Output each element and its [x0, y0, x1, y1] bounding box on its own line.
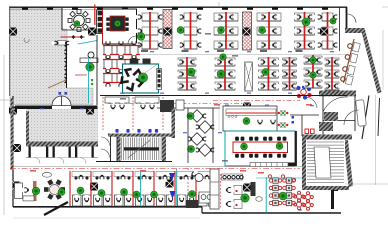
dimension line left	[0, 55, 9, 215]
table round small bottom	[190, 170, 203, 182]
cell walls elevators	[26, 147, 98, 158]
stair2 walls	[302, 135, 353, 191]
line pointer pinwheel	[141, 65, 157, 76]
table meeting with chairs	[106, 16, 128, 31]
cell door arcs	[34, 158, 86, 164]
room conference walls	[225, 131, 295, 166]
marks green lounge	[91, 79, 93, 85]
tables green legs	[278, 110, 289, 127]
table low bottom-left	[23, 196, 34, 201]
corridor line bands	[136, 53, 347, 55]
plant bottom row 154	[151, 191, 158, 198]
column grid (16.5 185.5)	[13, 182, 21, 190]
desk cluster A4	[257, 12, 281, 49]
desk reception	[80, 58, 98, 63]
partition red meeting left	[102, 9, 104, 44]
plant a2	[177, 27, 184, 34]
walls diamond room	[188, 108, 213, 163]
workstation bc1	[226, 186, 242, 195]
fireline red corridor	[108, 101, 300, 104]
wall service core band	[26, 142, 98, 147]
locker cabinet L1	[163, 10, 172, 49]
wall top window mullions	[22, 7, 328, 9]
desk cluster C2	[214, 57, 235, 90]
pinwheel desks	[122, 69, 143, 90]
wall outer right vestibule	[362, 96, 369, 140]
column grid (169.5 183.5)	[166, 180, 174, 188]
cell interiors	[31, 147, 92, 158]
partition red office	[226, 112, 276, 114]
tables dark above pinwheel	[130, 59, 151, 64]
table round with 8 chairs	[68, 10, 90, 32]
wall stub bottom-right	[331, 188, 338, 209]
desk cluster C4b	[323, 57, 341, 90]
plant bottom row 101.5	[98, 190, 105, 197]
plant large reception	[86, 63, 94, 71]
wall bottom exterior right	[202, 207, 341, 213]
table conference	[233, 137, 288, 158]
wall meeting room divider	[62, 8, 90, 30]
room office above conference	[223, 106, 277, 131]
partition red with diamonds	[61, 35, 85, 39]
labels tiny blue	[40, 51, 334, 133]
wall right lower exterior	[378, 98, 380, 136]
desk cluster D2	[91, 171, 112, 206]
desk row bottom-center	[222, 174, 244, 180]
rooms mid-left partitions	[103, 97, 163, 130]
counter dark dining	[251, 182, 256, 196]
column grid (167.5 31.5)	[164, 28, 172, 36]
desk cluster A5	[294, 12, 315, 49]
wall corridor main	[100, 95, 347, 97]
column grid (13 110.5)	[9, 107, 17, 115]
ramp line brown lounge	[48, 80, 66, 88]
door arc meeting room	[128, 36, 136, 44]
wc stalls left stair1	[101, 137, 117, 162]
column grid (92 31.5)	[88, 28, 96, 36]
desk cluster B3 horizontal	[103, 66, 140, 89]
plant a3	[218, 27, 225, 34]
door arc right room2	[344, 110, 359, 125]
desk cluster D1	[70, 171, 91, 206]
marks blue right	[292, 116, 295, 124]
dimension line bottom	[13, 217, 200, 219]
wall conference bottom thick	[281, 163, 295, 167]
plant bottom row 61.5	[58, 189, 65, 196]
desk cluster A6	[315, 12, 340, 49]
plant a4	[259, 27, 266, 34]
plant a6	[330, 18, 336, 24]
wall right upper exterior	[346, 7, 348, 29]
cabinet row below conference	[250, 163, 288, 167]
marks red reception	[75, 74, 87, 76]
plant dining	[279, 192, 287, 200]
desk cluster D4	[133, 171, 154, 206]
glass cyan dining	[256, 177, 302, 213]
column left mid	[13, 144, 21, 152]
grid line vertical center	[218, 2, 220, 130]
stair1 treads	[121, 137, 163, 161]
gray lounge room top-left	[10, 8, 93, 105]
plant a5	[302, 18, 310, 26]
table small reception	[88, 52, 94, 58]
plant c4b	[310, 72, 316, 78]
table oval dining	[256, 197, 262, 202]
marks circles office	[228, 116, 237, 118]
desk cluster B1 horizontal	[103, 38, 140, 61]
arrows blue exits	[169, 173, 176, 199]
dimension line right	[345, 7, 388, 185]
door arc right room3	[305, 97, 317, 108]
wall building left hatched	[11, 98, 14, 170]
glass cyan bottom	[140, 172, 142, 206]
marks blue small	[59, 92, 68, 95]
desk cluster A2	[177, 12, 204, 49]
wall diagonal bottom-left	[44, 202, 68, 215]
labels tiny text	[30, 33, 312, 174]
dining round tables right	[294, 191, 314, 210]
plant c2	[217, 70, 225, 78]
wall lounge lower right	[66, 42, 68, 88]
desk bottom-left corner	[15, 183, 29, 199]
table small corridor	[52, 41, 72, 46]
plant bottom row 192	[189, 191, 196, 198]
mark blue dining	[299, 209, 302, 211]
desk band office	[226, 109, 276, 116]
counter bottom kitchen	[186, 192, 213, 208]
cabinet redbrown bottom-left	[33, 181, 37, 201]
wall stair1 bottom	[96, 161, 172, 163]
desk cluster A3	[214, 12, 238, 49]
room floor open-plan hall	[9, 7, 347, 207]
room pinwheel walls	[123, 64, 159, 93]
walls right rooms	[290, 96, 355, 136]
stair1 walls	[108, 134, 172, 162]
wall hatched mid-right horizontal	[319, 91, 356, 97]
bench arc stack	[65, 45, 67, 83]
table round bottom-left	[44, 179, 65, 199]
desk cluster C3	[258, 57, 279, 90]
glass cyan lounge	[78, 41, 97, 104]
column grid (13 31.5)	[9, 28, 17, 36]
meeting room walls	[103, 9, 137, 44]
workstation bc2	[226, 200, 242, 209]
table tall T1	[245, 62, 253, 91]
desk cluster C4	[302, 55, 323, 88]
desk cluster A1	[135, 12, 165, 49]
plant bottom row 136.5	[133, 191, 140, 198]
fireline red dashdot	[10, 168, 300, 170]
wall service core top	[15, 106, 98, 110]
desk cluster D6	[175, 171, 196, 206]
kitchen counters	[160, 100, 184, 112]
wall hatched right diagonal	[361, 28, 382, 94]
wall bottom exterior left	[13, 206, 202, 208]
glass cyan conference	[225, 131, 295, 166]
locker cabinet L2	[243, 12, 252, 50]
wall dining right	[295, 131, 297, 166]
column grid (94 186.5)	[90, 183, 98, 191]
chairs cafe colored	[296, 85, 311, 100]
partition red top room	[94, 5, 96, 26]
plant bottom-left	[32, 187, 40, 195]
furniture mid rooms	[105, 97, 159, 109]
plant bottom-center	[241, 194, 249, 202]
cabinet column bottom-center	[210, 169, 219, 209]
dining tables red area	[268, 175, 295, 206]
wall bottom band top	[13, 166, 302, 168]
plant c3	[262, 69, 269, 76]
wall service core left	[26, 111, 29, 147]
wc urinals blue	[115, 129, 158, 133]
cabinet returns band1	[141, 50, 303, 52]
desk cluster D5	[154, 171, 175, 206]
wc fixtures red right	[304, 129, 316, 137]
door arcs double entry	[52, 96, 71, 106]
gray service core room	[26, 109, 98, 142]
column grid (247 187.5)	[243, 184, 251, 192]
wall hatched top-right horizontal	[345, 28, 362, 33]
locker column pinwheel	[157, 69, 162, 90]
plant a1	[137, 33, 145, 41]
wall hatch above stair1	[172, 108, 176, 138]
column grid (90 110.5)	[86, 107, 94, 115]
glass cyan bottom2	[176, 169, 178, 206]
wall left exterior	[10, 7, 13, 207]
door arc top-right entry	[347, 14, 356, 23]
desk cluster D7	[196, 171, 217, 206]
plant bottom row 80.5	[77, 187, 84, 194]
desk cluster D3	[112, 171, 133, 206]
door leaf right	[356, 100, 367, 127]
plant c2b	[220, 54, 226, 60]
chairs office row	[243, 117, 275, 125]
chair glyph lounge	[24, 38, 29, 42]
plant star pinwheel	[138, 73, 147, 82]
desks diagonal wall	[341, 39, 361, 85]
plant office	[243, 118, 250, 125]
stair2 treads	[306, 140, 345, 186]
wall corridor lower	[157, 107, 220, 109]
door arc right room	[323, 97, 348, 112]
column grid (246.5 31.5)	[243, 28, 251, 36]
cabinet row top right	[97, 10, 104, 34]
partition red dash diamond-room	[187, 168, 189, 206]
wall partition right hall	[339, 7, 341, 51]
column grid (324 31.5)	[320, 28, 328, 36]
wall top exterior	[9, 7, 347, 9]
wall reception right	[96, 35, 98, 105]
table oval bottom-left	[43, 172, 52, 177]
blocks gray right	[319, 112, 338, 131]
partition red dash bottom-center	[220, 174, 222, 208]
plant mid large	[187, 68, 195, 76]
column grid (247 106.5)	[243, 103, 251, 111]
tables diamond room	[185, 110, 217, 157]
plant c4a	[310, 57, 316, 63]
plant bottom row 124	[121, 189, 128, 196]
desk cluster C3b	[280, 57, 298, 90]
desk cluster C1	[176, 57, 197, 90]
desk cluster B2 horizontal	[103, 52, 140, 75]
